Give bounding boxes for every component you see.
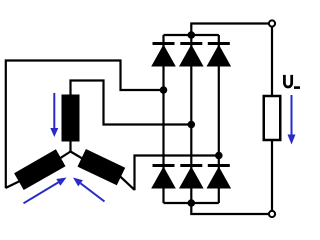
wire positive output to terminal: [191, 24, 272, 36]
wire bridge column 1: [162, 35, 164, 203]
terminal negative (open circle): [269, 211, 275, 217]
diode D3 (top row, col 2): [179, 42, 204, 67]
terminal positive (open circle): [269, 20, 275, 26]
wire load branch upper: [271, 24, 273, 97]
wire bottom anode bus: [164, 202, 219, 204]
diode D1 (top row, col 1): [151, 42, 176, 67]
diode D4 (bottom row, col 1): [151, 164, 176, 189]
arrow current L2 (blue, downward): [50, 93, 58, 137]
wire bridge column 3: [218, 35, 220, 203]
wire negative output to terminal: [191, 203, 272, 214]
node junction top bus / output: [188, 31, 196, 39]
wire top cathode bus: [164, 34, 219, 36]
arrow current L1 (blue, up-right): [24, 178, 67, 204]
node junction phase L3 / column 3: [215, 152, 223, 160]
label = (DC symbol bar, clipped at edge): [294, 86, 300, 89]
diode D2 (bottom row, col 3): [207, 164, 232, 189]
wire load branch lower: [271, 140, 273, 214]
diode D6 (bottom row, col 2): [179, 164, 204, 189]
winding L1 (lower-left, star phase): [14, 149, 65, 190]
diode D5 (top row, col 3): [207, 42, 232, 67]
wire bridge column 2: [190, 35, 192, 203]
node junction bottom bus / output: [188, 199, 196, 207]
node junction phase L1 / column 1: [160, 86, 168, 94]
wire winding axis L2 (vertical stub to star point): [69, 141, 71, 152]
arrow current L3 (blue, up-left): [73, 178, 105, 202]
winding L2 (vertical, star phase): [62, 95, 80, 142]
wire phase L3 path: [135, 156, 219, 191]
winding L3 (lower-right, star phase): [78, 149, 126, 185]
resistor R load: [264, 96, 281, 140]
label U=: [284, 75, 291, 87]
wire phase L1 outer loop: [6, 61, 164, 189]
node junction phase L2 / column 2: [188, 121, 196, 129]
arrow voltage U= (blue, downward): [288, 95, 296, 145]
wire winding axis L1 (left diagonal stub): [6, 152, 71, 188]
wire winding axis L3 (right diagonal stub): [71, 152, 135, 190]
wire phase L2 path: [71, 81, 192, 125]
